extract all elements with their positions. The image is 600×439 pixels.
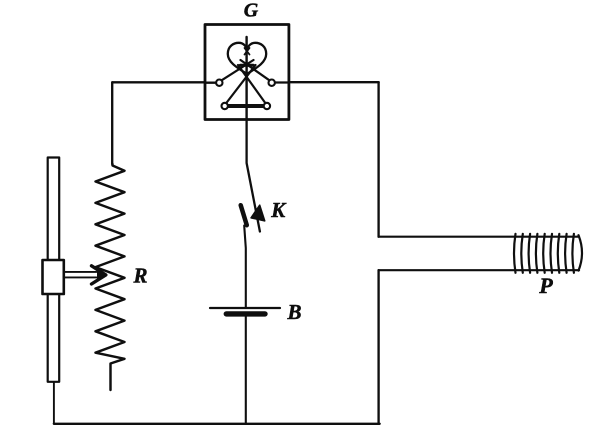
battery B thick plate <box>226 311 265 316</box>
G diagonal right-terminal to left loop <box>241 60 270 80</box>
G suspension fibre (vertical) <box>245 37 247 120</box>
G mirror dash <box>240 64 253 67</box>
wire right vertical lower (coil P down to bottom wire) <box>377 270 379 424</box>
G terminal circle right <box>269 80 275 86</box>
galvanometer G <box>205 25 289 120</box>
wiper arrow head <box>92 266 106 284</box>
svg-text:P: P <box>538 273 553 298</box>
wire battery B to bottom wire <box>245 317 247 424</box>
G frame strut left <box>226 65 255 103</box>
wire stub inside G left <box>205 82 216 84</box>
wire galvanometer G to key K (with slanted key blade) <box>247 120 260 232</box>
G box outline <box>205 25 289 120</box>
wire top-right horizontal (G to right corner) <box>289 81 379 83</box>
slider rod <box>48 158 60 382</box>
G coil double loop (heart) <box>228 43 266 74</box>
svg-text:R: R <box>132 263 147 287</box>
svg-text:K: K <box>270 198 287 222</box>
resistor R zigzag <box>96 164 125 390</box>
coil P tube top line <box>379 236 579 238</box>
coil P end cap <box>579 235 583 270</box>
G frame strut right <box>238 65 265 103</box>
svg-text:G: G <box>244 0 259 22</box>
key K arrow head <box>251 205 265 221</box>
G terminal circle left <box>216 80 222 86</box>
slider block <box>43 260 64 294</box>
G base circle left <box>222 103 228 109</box>
wire slider rod to bottom wire <box>53 382 55 424</box>
wire stub inside G right <box>275 81 289 83</box>
svg-text:B: B <box>286 300 301 324</box>
wire left vertical (top wire down to resistor R) <box>111 82 113 164</box>
coil P tube bottom line <box>379 269 579 271</box>
G base bar <box>227 104 265 108</box>
wiper arrow shaft <box>64 272 97 278</box>
key K contact bar <box>241 205 247 225</box>
wire key K to battery B <box>244 226 246 308</box>
G base circle right <box>264 103 270 109</box>
G diagonal left-terminal to right loop <box>222 60 254 80</box>
wire bottom horizontal <box>54 423 380 425</box>
battery B thin plate <box>210 307 280 309</box>
wire right vertical upper (corner down to coil P) <box>377 82 379 237</box>
wire top-left horizontal <box>113 81 206 83</box>
coil P winding turns <box>514 234 574 273</box>
G coil loop crossing strokes <box>245 48 250 55</box>
